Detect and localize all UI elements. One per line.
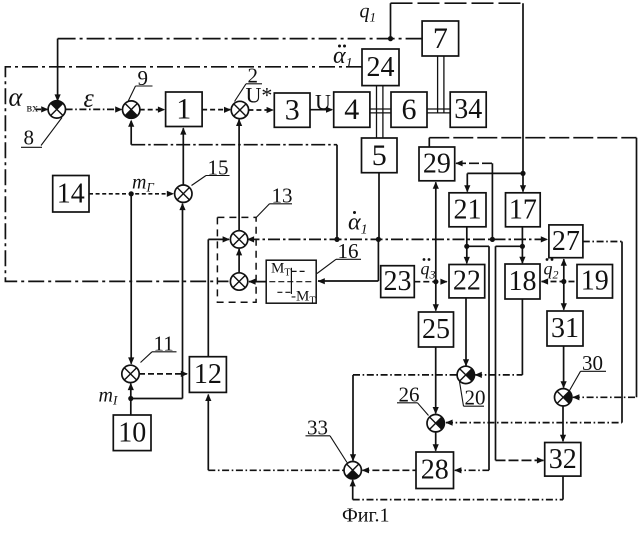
summing junction 26 bbox=[427, 415, 444, 432]
shaft gap 6-34 horizontal bbox=[427, 108, 450, 110]
summing junction 8 bbox=[48, 101, 65, 118]
node 21 branch bbox=[464, 244, 469, 249]
wire q2dd 19 to 18 bbox=[542, 281, 578, 283]
wire down to block 17 bbox=[522, 3, 524, 191]
wire 21 branch horizontal bbox=[467, 245, 489, 247]
label 20 bbox=[460, 382, 486, 410]
wire 17 branch vertical bbox=[495, 246, 497, 460]
svg-text:U: U bbox=[315, 90, 331, 115]
wire U 3 to 4 bbox=[310, 109, 332, 111]
svg-text:3: 3 bbox=[285, 94, 300, 127]
wire into 16 right bbox=[318, 280, 378, 282]
wire 13 lower to upper bbox=[238, 249, 240, 273]
block 18 bbox=[505, 264, 540, 299]
wire 11 to 12 bbox=[139, 373, 187, 375]
wire 5 down to bus bbox=[378, 173, 380, 240]
wire q3dd down to 25 bbox=[435, 282, 437, 311]
wire top horizontal to x=523 bbox=[391, 2, 524, 4]
summing junction 20 bbox=[457, 366, 474, 383]
label 26 bbox=[397, 383, 429, 416]
wire 32 bottom stub bbox=[562, 476, 564, 500]
summing junction 13 upper bbox=[230, 231, 247, 248]
svg-text:28: 28 bbox=[421, 455, 449, 486]
block 28 bbox=[416, 452, 454, 489]
node bus x378 bbox=[376, 237, 381, 242]
block 12 bbox=[189, 357, 226, 393]
wire 25 to junction 26 bbox=[435, 347, 437, 413]
wire 17 to 18 bbox=[521, 227, 523, 263]
svg-text:10: 10 bbox=[118, 417, 146, 448]
summing junction 9 bbox=[123, 101, 140, 118]
shaft 24 to gap 4-6 bbox=[376, 86, 378, 138]
svg-text:8: 8 bbox=[24, 126, 35, 150]
wire 33 output horizontal bbox=[208, 469, 344, 471]
svg-text:34: 34 bbox=[454, 94, 482, 125]
block 1 bbox=[166, 92, 203, 127]
block 19 bbox=[577, 265, 613, 299]
summing junction 2 bbox=[231, 101, 248, 118]
wire 12 up vertical bbox=[207, 239, 209, 356]
svg-text:α: α bbox=[9, 83, 24, 112]
wire q3dd 23 to 22 bbox=[414, 281, 447, 283]
wire into 26 right bbox=[446, 422, 622, 424]
block 32 bbox=[545, 443, 581, 477]
wire mI 10 to 11 bbox=[130, 384, 132, 415]
svg-text:12: 12 bbox=[194, 359, 222, 390]
block 4 bbox=[334, 92, 370, 127]
wire right edge vertical bbox=[636, 138, 638, 398]
wire q3dd up to 29 bbox=[435, 182, 437, 282]
wire mI branch vertical to 15 bbox=[182, 204, 184, 399]
summing junction 11 bbox=[122, 365, 139, 382]
summing junction 30 bbox=[555, 389, 572, 406]
wire into 29 right bbox=[456, 162, 492, 164]
svg-text:вх: вх bbox=[27, 101, 39, 115]
wire q1 feedback horizontal bbox=[58, 38, 423, 40]
summing junction 33 bbox=[344, 462, 361, 479]
wire alpha-vx input bbox=[36, 108, 47, 110]
wire into 30 right bbox=[573, 396, 637, 398]
svg-text:6: 6 bbox=[402, 93, 417, 126]
wire 29 top stub bbox=[428, 138, 430, 147]
block 31 bbox=[547, 311, 583, 346]
svg-text:5: 5 bbox=[372, 139, 387, 172]
shaft gap 4-6 horizontal bbox=[370, 108, 391, 110]
block 7 bbox=[422, 21, 459, 56]
svg-text:18: 18 bbox=[509, 266, 537, 297]
wire top right horizontal bbox=[429, 137, 636, 139]
svg-text:17: 17 bbox=[509, 194, 537, 225]
wire 22 to junction 20 bbox=[465, 298, 467, 366]
wire 31 to junction 30 bbox=[563, 346, 565, 388]
wire up into 9 bottom bbox=[130, 121, 132, 145]
node at 17 branch bbox=[520, 171, 525, 176]
wire 20 output horizontal bbox=[353, 374, 457, 376]
shaft 7 to gap 6-34 bbox=[437, 56, 439, 113]
wire bus up vertical bbox=[491, 163, 493, 239]
wire mG down to 11 bbox=[130, 194, 132, 364]
wire 17 branch horizontal bbox=[496, 245, 523, 247]
label 30 bbox=[570, 351, 607, 391]
wire down into 33 top bbox=[352, 375, 354, 461]
block 16 relay bbox=[266, 260, 316, 306]
summing junction 13 lower bbox=[230, 273, 247, 290]
block 29 bbox=[419, 147, 455, 181]
wire q2dd up to 27 bbox=[563, 259, 565, 281]
block 14 bbox=[53, 176, 89, 213]
wire 18 down vertical bbox=[521, 299, 523, 375]
svg-text:32: 32 bbox=[549, 444, 577, 475]
wire up into 33 bottom bbox=[352, 480, 354, 500]
svg-text:21: 21 bbox=[454, 194, 482, 225]
wire alpha-dot-1 bus bbox=[248, 238, 548, 240]
wire bottom horizontal to 33 bbox=[353, 499, 563, 501]
svg-text:4: 4 bbox=[344, 93, 359, 126]
wire up into 12 bottom bbox=[207, 395, 209, 471]
svg-text:14: 14 bbox=[57, 178, 85, 209]
label 13 bbox=[256, 184, 292, 218]
block 25 bbox=[419, 312, 454, 347]
svg-text:31: 31 bbox=[551, 313, 579, 344]
wire 1 to junction 2 bbox=[202, 109, 230, 111]
wire 2 to 3 bbox=[248, 109, 272, 111]
dashed box 13 bbox=[217, 217, 256, 302]
block 17 bbox=[506, 193, 541, 227]
block 24 bbox=[362, 49, 399, 86]
label 16 bbox=[317, 239, 361, 274]
summing junction 15 bbox=[175, 185, 192, 202]
node bus x492 bbox=[490, 237, 495, 242]
label 8 bbox=[21, 118, 62, 150]
svg-text:7: 7 bbox=[433, 22, 448, 55]
wire into 20 right bbox=[475, 374, 522, 376]
wire 13 upper to junction 2 bbox=[238, 120, 240, 231]
node q1 bbox=[388, 36, 393, 41]
node q2dd bbox=[561, 279, 566, 284]
node bus x337 bbox=[334, 237, 339, 242]
label 2 bbox=[235, 64, 263, 102]
wire feedback horizontal y145 bbox=[131, 144, 337, 146]
svg-text:1: 1 bbox=[176, 93, 191, 126]
node mI bbox=[128, 396, 133, 401]
block 22 bbox=[449, 265, 485, 298]
block 10 bbox=[113, 415, 151, 451]
wire 27 down vertical bbox=[621, 242, 623, 423]
wire down to bus x337 bbox=[336, 145, 338, 240]
svg-text:Фиг.1: Фиг.1 bbox=[342, 505, 389, 527]
wire branch to block 21 bbox=[467, 172, 523, 174]
wire 30 to 32 bbox=[562, 406, 564, 441]
wire q1 up branch bbox=[390, 3, 392, 38]
block 21 bbox=[449, 193, 486, 227]
block 5 bbox=[362, 138, 398, 173]
svg-text:27: 27 bbox=[552, 226, 580, 257]
wire 27 output horizontal bbox=[583, 241, 622, 243]
wire 16 to 13 lower bbox=[249, 281, 266, 283]
svg-text:ε: ε bbox=[84, 84, 95, 113]
svg-text:25: 25 bbox=[422, 314, 450, 345]
wire bus down toward 16 bbox=[377, 239, 379, 281]
node 17 branch bbox=[520, 244, 525, 249]
block 6 bbox=[391, 92, 427, 127]
wire alpha-dd feedback frame bbox=[5, 67, 362, 282]
wire q2dd down to 31 bbox=[563, 282, 565, 310]
wire 15 to 1 bbox=[182, 128, 184, 185]
label 9 bbox=[128, 66, 153, 102]
label 15 bbox=[192, 155, 230, 185]
wire q1 down to junction 8 bbox=[57, 39, 59, 101]
svg-text:23: 23 bbox=[384, 266, 412, 297]
wire 21 branch vertical bbox=[488, 246, 490, 470]
label 33 bbox=[306, 416, 348, 463]
wire 21 to 22 bbox=[466, 227, 468, 263]
node mG bbox=[129, 191, 134, 196]
svg-text:24: 24 bbox=[367, 52, 395, 83]
wire 28 to 33 right bbox=[362, 469, 416, 471]
wire 9 to 1 bbox=[140, 109, 164, 111]
wire into 32 left bbox=[496, 459, 544, 461]
wire 26 to 28 bbox=[435, 432, 437, 451]
wire into 13 upper left bbox=[208, 238, 229, 240]
block 3 bbox=[274, 93, 310, 127]
wire into 28 right bbox=[455, 469, 489, 471]
svg-text:22: 22 bbox=[453, 266, 481, 297]
block 23 bbox=[381, 266, 415, 298]
node q3dd bbox=[433, 279, 438, 284]
wire mI branch horizontal bbox=[131, 398, 183, 400]
block 34 bbox=[450, 92, 486, 127]
block 27 bbox=[549, 225, 583, 258]
svg-text:29: 29 bbox=[423, 148, 451, 179]
svg-text:19: 19 bbox=[581, 266, 609, 297]
wire epsilon 8 to 9 bbox=[66, 108, 122, 110]
label 11 bbox=[141, 332, 177, 363]
wire mG 14 to 15 bbox=[89, 193, 173, 195]
